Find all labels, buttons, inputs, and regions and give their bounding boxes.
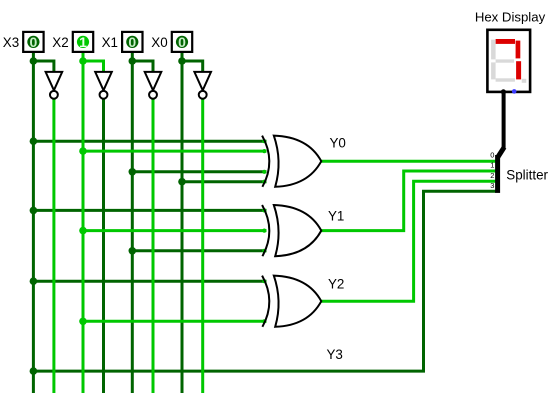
junction X1 row U2 [129,247,137,255]
segment c (on) [516,61,521,79]
junction X3 row U2 [30,207,38,215]
wire X2 vertical [82,52,85,394]
svg-text:Y2: Y2 [328,276,344,291]
wire net Y0 output to splitter [321,160,496,163]
inverter G3 (NOT X1) [145,72,162,99]
svg-text:X2: X2 [52,35,68,50]
wire row X1 to XOR U1 [132,170,266,173]
junction on X2 at inverter branch [79,57,87,65]
wire inverter G1 output vertical [52,99,55,393]
wire X2 branch to inverter G2 [83,61,104,73]
hex display component [487,30,530,95]
svg-text:3: 3 [490,181,494,190]
svg-text:2: 2 [490,171,494,180]
input pin X0 (value 0) [172,32,192,52]
input pin X3 (value 0) [23,32,43,52]
junction X0 row U1 [178,178,186,186]
wire X3 vertical [32,52,35,394]
segment a (on) [496,39,515,44]
svg-text:Hex Display: Hex Display [475,9,546,24]
port dots XOR U3 inputs [262,279,266,323]
input pin X1 (value 0) [122,32,142,52]
XOR gate U2 (Y1) [262,205,321,256]
segment g (off) [496,59,514,62]
input pin X2 (value 1) [73,32,93,52]
segment e (off) [491,62,496,79]
svg-text:X0: X0 [151,35,167,50]
junction X1 row U1 [129,168,137,176]
svg-text:1: 1 [79,34,87,50]
wire inverter G4 output vertical [201,99,204,393]
wire X1 branch to inverter G3 [132,61,153,73]
wire X3 branch to inverter G1 [33,61,54,73]
wire net Y2 output to splitter [321,181,496,301]
wire row X0 to XOR U1 [182,180,267,183]
segment dp (off) [522,79,527,83]
junction on X1 at inverter branch [129,57,137,65]
wire row X1 to XOR U2 [132,249,266,252]
svg-text:0: 0 [30,34,38,50]
svg-text:Splitter: Splitter [506,167,548,182]
inverter G2 (NOT X2) [95,72,112,99]
wire row X2 to XOR U2 [83,229,267,232]
inverter G1 (NOT X3) [46,72,63,99]
segment d (off) [496,78,515,81]
junction X3 row U1 [30,137,38,145]
wire row X3 to XOR U1 [33,140,266,143]
XOR gate U3 (Y2) [262,276,321,327]
svg-text:X3: X3 [3,35,19,50]
svg-text:Y1: Y1 [328,208,344,223]
wire X0 branch to inverter G4 [182,61,203,73]
svg-text:X1: X1 [102,35,118,50]
wire net Y3 from X3 to splitter [33,191,495,371]
wire row X2 to XOR U3 [83,320,267,323]
junction on X3 at inverter branch [30,57,38,65]
wire row X2 to XOR U1 [83,150,267,153]
svg-text:1: 1 [490,161,494,170]
splitter bit labels 0-3 [490,151,494,190]
svg-text:Y0: Y0 [330,135,346,150]
junction X2 row U3 [79,318,87,326]
inverter G4 (NOT X0) [194,72,211,99]
port dots XOR U1 inputs [262,139,266,184]
svg-text:0: 0 [128,34,136,50]
splitter spine [495,155,500,193]
wire net Y1 output to splitter [321,171,496,231]
hex display dp port (floating, blue) [512,89,517,94]
svg-text:0: 0 [178,34,186,50]
segment b (on) [516,41,521,59]
port dots XOR U2 inputs [262,208,266,253]
XOR gate U1 (Y0) [262,136,321,187]
wire inverter G3 output vertical [152,99,155,393]
splitter diagonal [498,147,505,157]
bus wire hex display to splitter [502,92,506,149]
wire row X3 to XOR U2 [33,209,266,212]
wire X1 vertical [131,52,134,394]
junction X2 row U1 [79,147,87,155]
junction X3 row U3 [30,277,38,285]
junction X2 row U2 [79,227,87,235]
svg-text:Y3: Y3 [327,347,343,362]
hex display input port [501,89,506,94]
wire inverter G2 output vertical [102,99,105,393]
junction X3 row Y3 [30,367,38,375]
wire X0 vertical [181,52,184,394]
wire row X3 to XOR U3 [33,280,266,283]
svg-text:0: 0 [490,151,494,160]
junction on X0 at inverter branch [178,57,186,65]
segment f (off) [491,40,496,60]
